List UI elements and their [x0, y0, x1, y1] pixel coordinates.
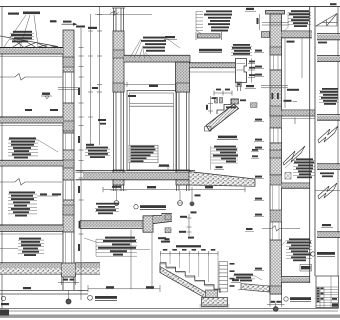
level 4.08 far right	[321, 224, 333, 228]
ground gravel layer 1 left	[0, 263, 62, 268]
wall W4 beam block y106-116	[270, 106, 282, 116]
level mark 7.18	[245, 85, 256, 88]
stairA steps profile	[217, 99, 239, 114]
eave right text box	[231, 44, 252, 55]
W4 base dim ticks	[267, 302, 285, 307]
footing dim ticks	[58, 278, 79, 285]
window head small text	[128, 95, 136, 97]
stair top text	[161, 241, 170, 243]
far right line y190	[315, 190, 340, 192]
text list mid-left	[9, 137, 36, 158]
long wall line A	[309, 7, 311, 283]
slab 3 right of W4	[282, 183, 311, 188]
text list low-left underlines	[8, 194, 37, 214]
W4 mid ticks y85-88	[261, 86, 288, 88]
wall W4 hatched y240-294	[270, 240, 282, 294]
text list bottom-left underlines	[18, 240, 44, 253]
wall W4 stipple y116-128	[270, 116, 282, 128]
parapet leader line y14.5	[95, 14, 152, 16]
dim ticks crossing W1 y87-89	[58, 87, 80, 89]
dim text left of x99	[86, 27, 98, 146]
wall W4 window y128-143	[270, 128, 282, 143]
far right text underlines	[319, 90, 338, 102]
wall W4 beam block y150-158	[270, 150, 282, 158]
W4 bottom text stack	[287, 238, 311, 261]
ground gravel right of footing	[76, 263, 101, 274]
parapet cap	[266, 11, 285, 15]
dim texts 300/100	[106, 286, 154, 288]
wall W1 beam block y57-67	[63, 57, 74, 67]
entry step dim	[187, 214, 192, 236]
wall W3 window jamb lines y92-170	[177, 92, 190, 170]
stair foundation pad	[200, 298, 230, 308]
W4 axis bubble	[273, 303, 278, 311]
wall W4 stipple y286-294	[270, 286, 282, 294]
stairA dim text 260	[216, 89, 230, 91]
wall W1 hatched segment y150-180	[63, 150, 74, 180]
bottom-left corner block	[0, 310, 9, 316]
slab 4 right of W4	[282, 277, 311, 283]
apron text rows left of right-wall base	[234, 274, 253, 282]
wall W1 beam block y205-215	[63, 205, 74, 215]
wall W4 plain y185-210	[270, 185, 282, 210]
roof spec text rows	[11, 31, 32, 43]
axis bubble left	[114, 191, 119, 205]
stairA left dim	[208, 96, 213, 114]
top-left tiny text	[8, 13, 19, 15]
stairA railing posts	[215, 98, 223, 104]
stairA foot	[205, 127, 212, 132]
wall W1 beam block y160-168	[63, 160, 74, 168]
W4 base dim texts	[271, 301, 281, 303]
wall W3 hatched top y62-92	[176, 62, 190, 92]
text list mid-left underlines	[8, 140, 58, 156]
dim text 100 bottom	[23, 287, 31, 289]
apron text underlines	[233, 276, 262, 280]
stairA waist slab	[206, 104, 239, 131]
W4 internal dim marks	[272, 93, 279, 99]
slab 2 right of W4	[282, 110, 316, 118]
wall W4 plain y222-240	[270, 222, 282, 240]
left small text rows near slab	[86, 147, 108, 158]
text list low-left	[9, 192, 35, 217]
stairA caption	[217, 136, 238, 140]
slab 2 far right	[317, 115, 340, 121]
wall W2 hatched y31-92	[113, 31, 124, 92]
dim extension lines bottom-center	[88, 230, 160, 292]
wall W1 below-footing lines y277-290	[63, 277, 74, 290]
spec leader to floor	[158, 164, 170, 171]
footing dim text	[63, 279, 75, 281]
wall W1 plain segment y180-200	[63, 180, 74, 200]
lower roof deck x196-232	[190, 63, 236, 72]
left small text underlines	[85, 149, 110, 155]
corner dash top right	[330, 3, 337, 5]
stair tread double lines	[160, 264, 214, 286]
gravel ramp	[189, 172, 255, 187]
wall W1 plain segment y133-150	[63, 133, 74, 150]
roof leader text label	[23, 12, 40, 15]
landing slab end cap	[79, 221, 81, 229]
under-slab text rows	[96, 203, 119, 214]
far right small text	[318, 42, 327, 44]
dim line between bubbles	[103, 187, 245, 192]
entry step dim texts	[179, 211, 197, 238]
slab 4 far right	[317, 232, 340, 238]
ramp list bottom level text	[214, 166, 224, 169]
interior face lines below right slab	[285, 38, 302, 108]
wall W2 upper thin lines y8-31 with break	[110, 8, 125, 31]
wall W4 beam block y47-55	[270, 47, 282, 55]
stair dim span texts	[163, 249, 216, 251]
stair waist slab gravel	[160, 267, 213, 303]
ground line 2	[0, 293, 88, 295]
stair left edge line	[159, 263, 161, 273]
dim text 3M	[147, 186, 156, 188]
window transom lines	[130, 104, 174, 107]
window spec table	[129, 145, 158, 162]
wall W1 beam block y121-131	[63, 121, 74, 131]
wall W1 plain segment y72-103	[63, 72, 74, 103]
entry step chips left	[165, 215, 172, 240]
roof slab right of W4	[282, 31, 313, 38]
W4 top text stack	[289, 10, 310, 27]
stair top dim line	[160, 251, 218, 256]
wall W2 base dim text	[110, 186, 127, 190]
long wall line B	[314, 7, 316, 276]
landing slab left part	[80, 221, 143, 229]
caption detail6	[311, 252, 335, 257]
dim line vertical x81	[79, 28, 84, 300]
rigid-roof sample bar	[196, 32, 222, 40]
roof slab far right	[317, 34, 340, 40]
apron gravel wedge	[238, 284, 270, 293]
wall W2 window jamb lines y92-170	[114, 92, 124, 170]
W4 mid text stack	[294, 158, 314, 178]
wall W1 plain segment y232-263	[63, 232, 74, 263]
eave dim ticks right	[248, 59, 255, 83]
eave spec text stack	[141, 37, 166, 52]
slope arrow	[62, 21, 78, 26]
break arrow far right 2	[318, 183, 337, 199]
break arrow far right 1	[318, 126, 338, 143]
wall W1 hatched segment y103-133	[63, 103, 74, 133]
small text right of x152	[158, 237, 166, 239]
rigid-roof bracket lines	[196, 11, 203, 33]
break line y77	[0, 74, 62, 81]
small box marker with cross	[285, 173, 291, 180]
parapet mini dim	[257, 14, 260, 30]
window elevation inner rect	[130, 93, 174, 170]
level mark 2F	[41, 93, 52, 100]
leader to wall y196	[37, 193, 61, 196]
text list above ramp underlines	[211, 146, 239, 170]
bottom frame line 2	[0, 310, 338, 312]
wall W4 hatched y143-175	[270, 143, 282, 175]
landing slab right part	[153, 213, 172, 223]
slab 1b far right y55-62	[317, 56, 340, 62]
slab 3 far right	[317, 164, 340, 170]
wall W2 beam block y50-58	[113, 50, 124, 58]
level 5.08 top	[245, 8, 256, 11]
wall W2 hatched y170-185	[113, 170, 124, 185]
window elevation outer rect	[127, 91, 176, 171]
apron level mark	[231, 279, 241, 282]
rigid-roof caption	[199, 49, 222, 53]
right frame border	[337, 7, 339, 310]
landing text underlines	[84, 238, 150, 256]
small dim text y110	[25, 109, 58, 111]
W4 scale text y100	[284, 100, 298, 102]
bottom cut band	[0, 315, 340, 318]
stairA step label	[226, 99, 246, 108]
stair header bar	[176, 245, 201, 247]
stair extension verticals	[160, 256, 218, 289]
single eave label left	[164, 36, 177, 39]
eave spec leaders	[130, 38, 180, 60]
top frame border	[0, 6, 340, 8]
corner caption bottom-left	[1, 296, 9, 305]
eave beam C-edge	[236, 59, 247, 92]
label box left of W4 bottom	[300, 265, 312, 272]
axis bubble right	[178, 191, 183, 205]
leader fan from roof text	[4, 15, 38, 47]
wall W1 hatched segment y30-72	[63, 30, 74, 72]
stairA top dim line	[214, 91, 232, 96]
wall W4 hatched y70-116	[270, 70, 282, 116]
W4 mid text underlines	[285, 161, 315, 176]
W4 level marks left	[254, 50, 264, 271]
floor slab 4 x0-63	[0, 225, 63, 234]
floor slab 3 x0-62	[0, 160, 63, 166]
wall W4 beam block y175-185	[270, 175, 282, 185]
landing column hatched	[143, 216, 153, 232]
detail marker box top	[236, 82, 242, 87]
far right text stack mid	[320, 88, 338, 105]
break arrow across W4 y148-163	[283, 146, 305, 165]
dim line vertical x99.5	[97, 7, 102, 145]
landing text rows below	[98, 237, 136, 256]
text list bottom-left	[19, 238, 41, 256]
wall W4 ticks across top	[262, 23, 289, 26]
stair riser dim ladder	[219, 262, 228, 293]
upper roof deck x124-190	[124, 55, 190, 62]
wall W2 lines y185-198	[114, 185, 124, 191]
stairA top beam block	[231, 99, 239, 104]
break jog line y228	[262, 226, 300, 232]
W4 top text underlines	[284, 13, 311, 32]
text list above ramp	[213, 146, 238, 163]
roof truss above slab	[0, 36, 58, 48]
far right small rows under slab3	[320, 172, 334, 177]
leader line y248	[0, 248, 18, 250]
C-bracket gutter left of W4	[262, 32, 270, 38]
window head dim line	[124, 82, 176, 87]
roof step edge x190-196	[189, 55, 191, 63]
stair steps profile	[160, 263, 220, 293]
wall W4 below lines y294-303	[270, 294, 282, 303]
window dim text 1.5M	[149, 85, 158, 87]
small text right of ramp base	[245, 228, 254, 231]
roof spec underlines	[10, 33, 34, 39]
wall W4 hatched y14-55	[270, 14, 282, 55]
roof truss triangle top right	[316, 14, 337, 27]
wall W4 stipple y210-222	[270, 210, 282, 222]
ramp end dim	[190, 187, 201, 206]
eave dim texts	[249, 61, 255, 76]
W4 label right y88	[287, 89, 299, 91]
drip line under slab2	[294, 118, 296, 125]
level text near W2	[98, 119, 106, 125]
W4 bottom text underlines	[282, 241, 312, 259]
bottom frame line 1	[0, 308, 338, 310]
stairA left dim texts	[206, 97, 217, 110]
wall W1 hatched segment y200-232	[63, 200, 74, 232]
wall W4 window y55-70	[270, 55, 282, 70]
under-slab text underlines	[95, 208, 119, 211]
wall W1 footing hatched y263-277	[62, 263, 76, 277]
caption detail2	[134, 205, 166, 210]
floor slab 2F x0-63	[0, 117, 63, 126]
break line y182	[0, 179, 62, 186]
dim vertical text marks	[76, 26, 85, 252]
wall W3 beam block y83-92	[176, 83, 190, 92]
small hatch chip right	[251, 103, 258, 108]
detail1 axis bubble	[66, 290, 71, 304]
ramp right level marks	[251, 149, 259, 158]
caption detail7	[284, 297, 311, 302]
stair foundation hatch block	[206, 290, 218, 298]
caption detail4	[88, 295, 117, 300]
rigid-roof text stack with bracket	[204, 10, 232, 31]
wall W3 hatched y170-185	[176, 170, 190, 185]
roof slab left x0-63	[0, 48, 63, 57]
wall W3 lines y185-198	[177, 185, 190, 191]
stair riser texts	[230, 263, 235, 287]
title block table	[316, 276, 339, 308]
left frame border	[1, 7, 3, 310]
ground gravel layer 2 left	[0, 268, 62, 274]
ground line 1	[0, 290, 88, 292]
dim line vertical x90.5	[88, 14, 93, 145]
slope text 150	[50, 20, 57, 22]
scale text below right slab	[287, 41, 295, 43]
floor slab center y171-180	[76, 171, 196, 180]
wall W2 beam block y83-92	[113, 83, 124, 92]
